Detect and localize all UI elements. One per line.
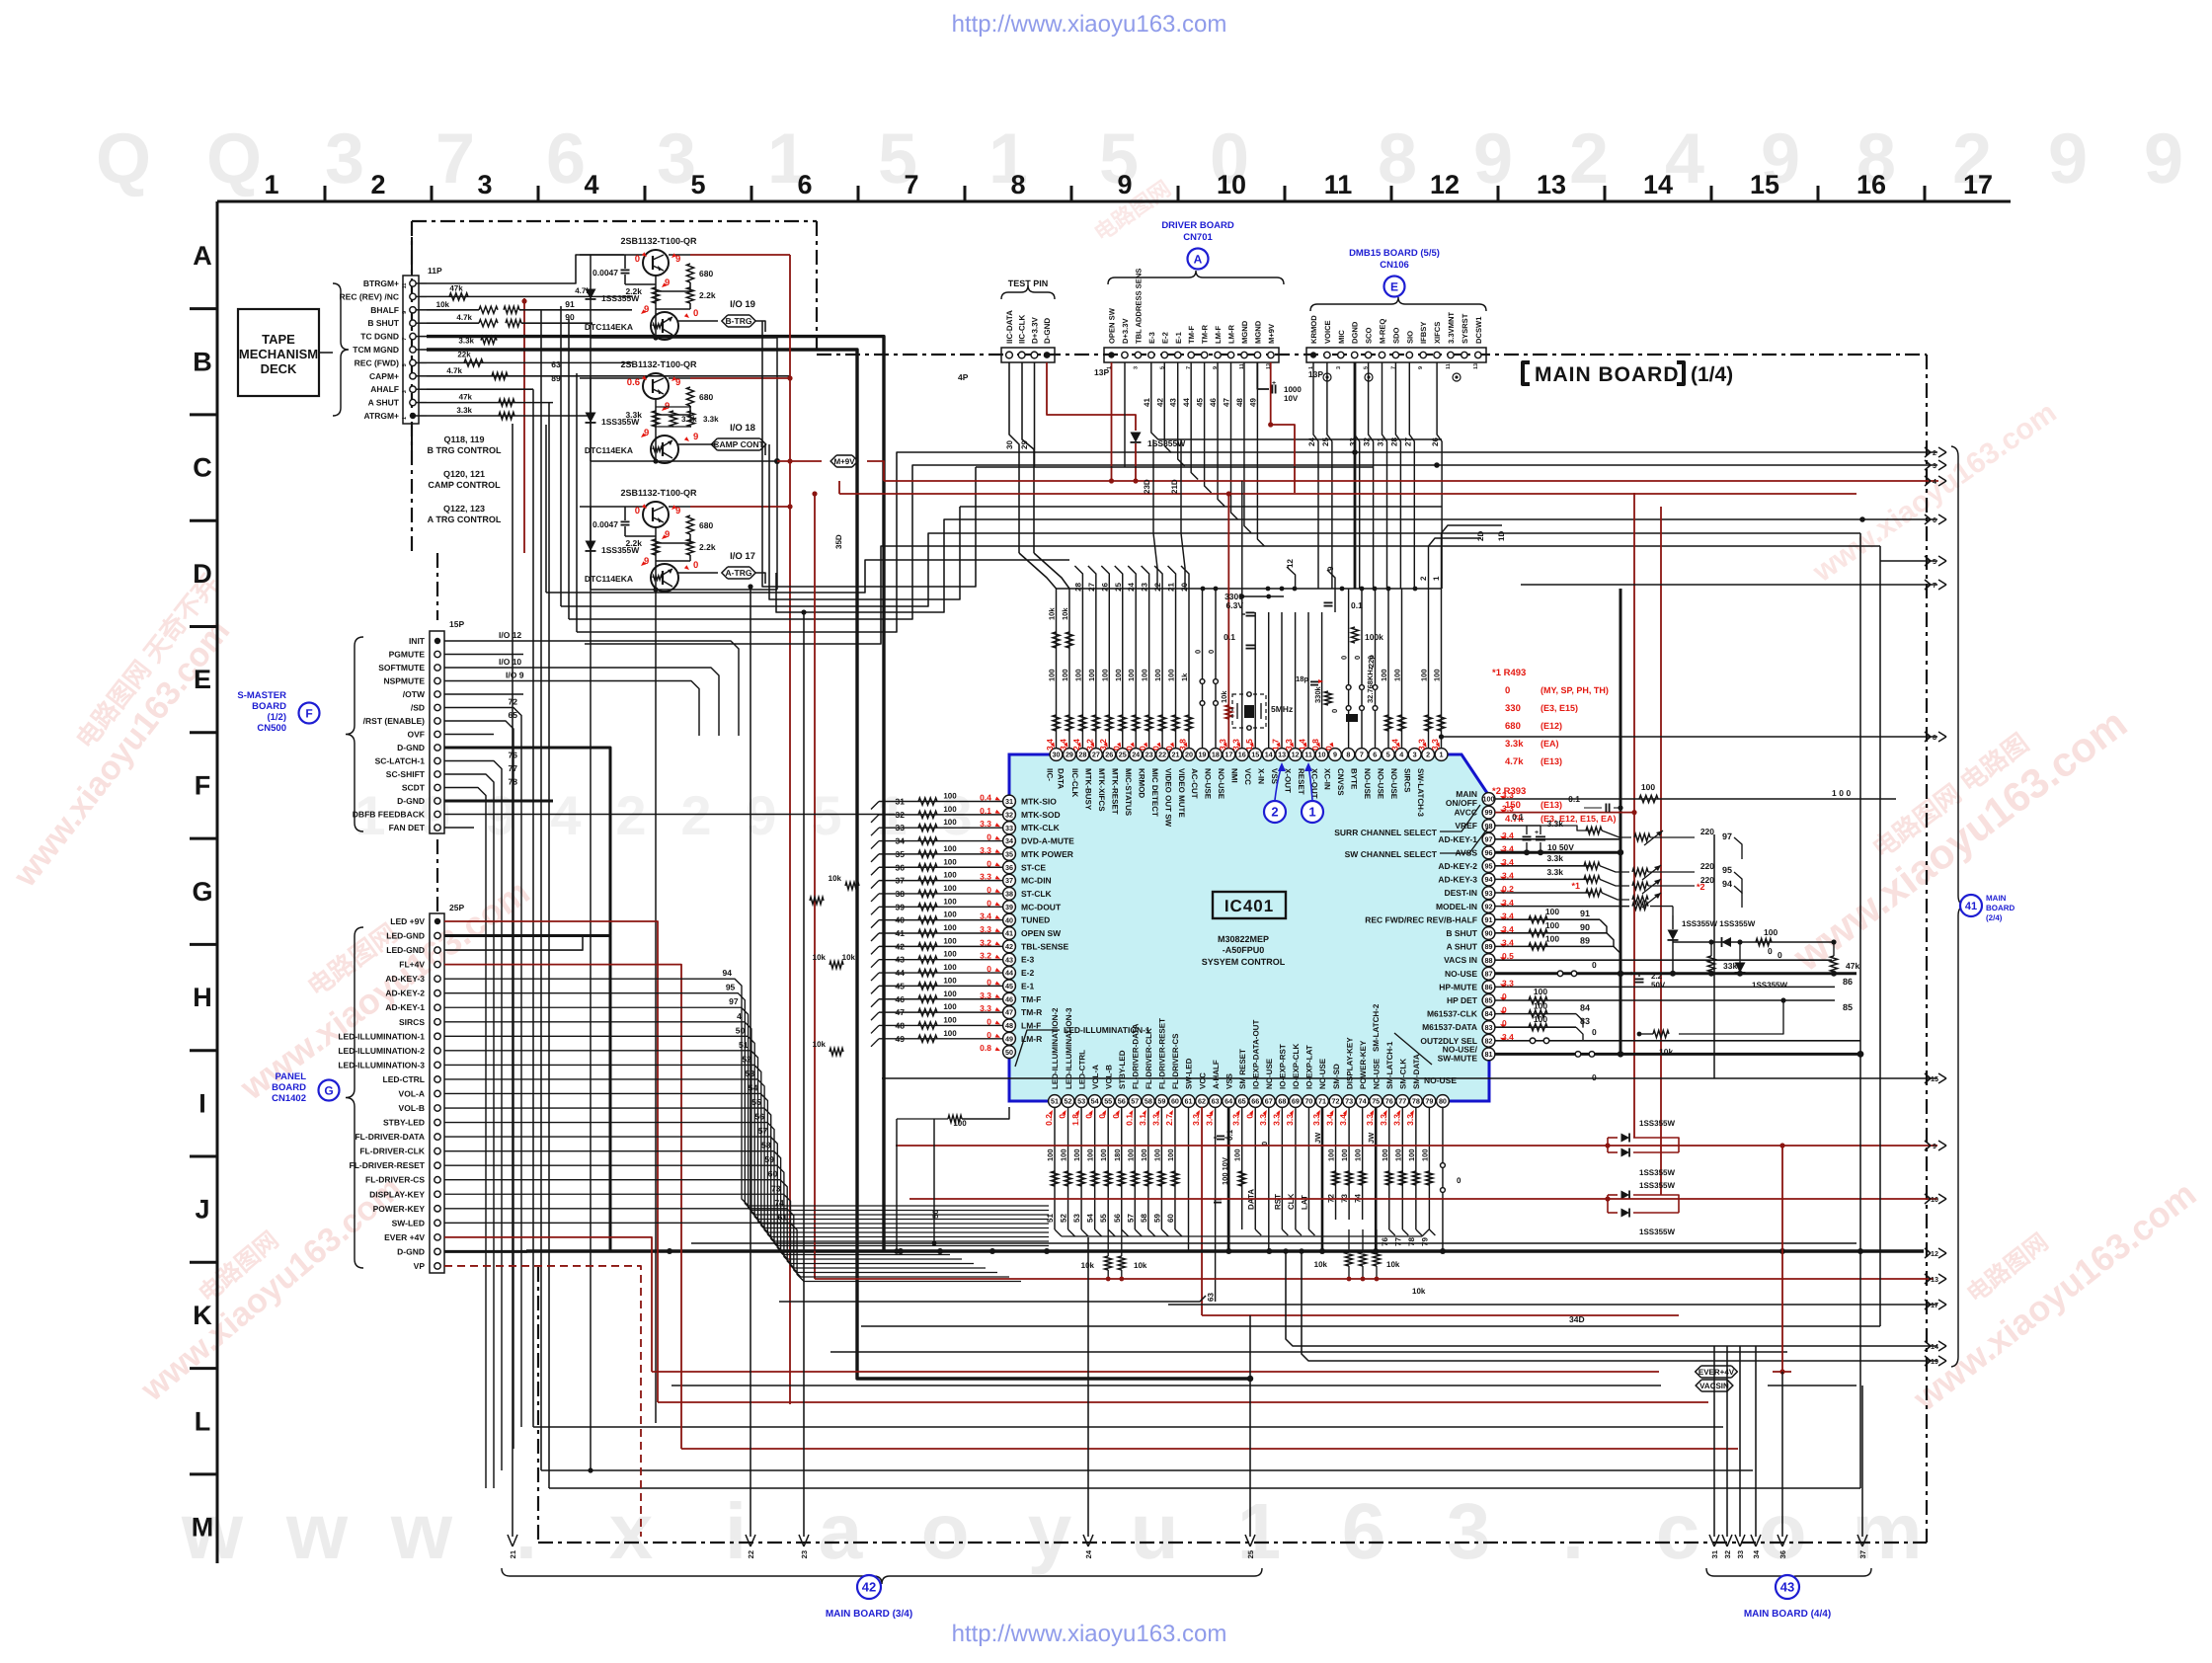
svg-text:0: 0 [1592,960,1597,970]
svg-text:1SS355W: 1SS355W [1639,1227,1675,1236]
svg-text:55: 55 [751,1097,761,1107]
svg-text:49: 49 [1248,398,1257,407]
svg-text:28: 28 [1073,582,1082,591]
svg-text:X-IN: X-IN [1256,768,1265,784]
svg-text:91: 91 [1580,909,1590,918]
svg-text:3.3: 3.3 [1391,1114,1401,1126]
svg-text:VIDEO MUTE: VIDEO MUTE [1177,768,1186,818]
svg-text:78: 78 [1412,1097,1420,1106]
svg-text:11: 11 [1446,363,1452,369]
svg-text:1: 1 [1308,805,1315,820]
svg-text:CN106: CN106 [1380,260,1409,271]
svg-text:48: 48 [1235,398,1244,407]
svg-text:9: 9 [675,506,680,516]
svg-text:100: 100 [1099,1148,1108,1161]
svg-text:D-GND: D-GND [1043,318,1052,344]
svg-text:NSPMUTE: NSPMUTE [383,676,425,686]
svg-text:100: 100 [1327,1148,1336,1161]
svg-text:42: 42 [862,1580,876,1595]
svg-text:100: 100 [1046,1148,1055,1161]
svg-text:10k: 10k [1061,607,1069,620]
svg-text:59: 59 [764,1154,774,1164]
svg-text:5: 5 [811,784,841,846]
svg-text:9: 9 [1326,566,1335,571]
svg-text:MECHANISM: MECHANISM [239,347,318,361]
svg-text:C: C [193,453,212,483]
svg-text:8: 8 [1010,170,1025,199]
svg-text:STBY-LED: STBY-LED [383,1118,425,1128]
svg-text:57: 57 [1131,1097,1139,1106]
svg-text:http://www.xiaoyu163.com: http://www.xiaoyu163.com [952,11,1227,38]
svg-text:1k: 1k [1180,673,1189,681]
svg-text:a: a [819,1487,863,1575]
svg-text:2: 2 [1569,119,1609,198]
svg-text:35D: 35D [834,534,843,549]
svg-text:100: 100 [1420,669,1429,681]
svg-text:60: 60 [1171,1097,1179,1106]
svg-text:17: 17 [1963,170,1993,199]
svg-text:10k: 10k [1412,1287,1426,1296]
svg-text:CN701: CN701 [1183,232,1213,243]
svg-text:100: 100 [1048,669,1057,681]
svg-text:CN1402: CN1402 [272,1093,306,1104]
svg-text:18p: 18p [1296,674,1308,683]
svg-text:10k: 10k [829,874,842,883]
svg-text:26: 26 [1100,582,1109,591]
svg-text:0: 0 [1777,950,1782,960]
svg-text:(1/4): (1/4) [1691,363,1733,386]
svg-text:TM-F: TM-F [1187,326,1196,344]
svg-text:M-REQ: M-REQ [1379,319,1387,344]
svg-text:DCSW1: DCSW1 [1474,316,1483,344]
svg-text:100: 100 [943,857,957,866]
svg-text:57: 57 [1126,1214,1135,1223]
svg-text:1.8: 1.8 [1070,1114,1080,1126]
svg-text:3.4: 3.4 [1205,1114,1215,1126]
svg-text:100: 100 [943,818,957,827]
svg-text:3.3: 3.3 [1405,1114,1415,1126]
svg-text:KRMOD: KRMOD [1137,768,1145,798]
svg-text:NO-USE: NO-USE [1372,1058,1381,1089]
svg-text:*1 R493: *1 R493 [1492,668,1526,678]
svg-text:9: 9 [1473,119,1513,198]
svg-text:B SHUT: B SHUT [1446,928,1477,938]
svg-text:4.7k: 4.7k [456,313,472,322]
svg-text:10 50V: 10 50V [1547,842,1574,852]
svg-text:SYSYEM CONTROL: SYSYEM CONTROL [1202,957,1286,967]
svg-text:94: 94 [1485,875,1493,884]
svg-text:1SS355W: 1SS355W [601,293,640,303]
svg-text:VOICE: VOICE [1323,320,1332,344]
svg-text:MGND: MGND [1253,320,1262,344]
svg-text:JW: JW [1313,1132,1322,1144]
svg-text:3.3k: 3.3k [1546,819,1563,829]
svg-text:44: 44 [1182,398,1191,407]
svg-text:13: 13 [1473,363,1479,369]
svg-text:10k: 10k [813,953,827,962]
svg-text:100k: 100k [1365,632,1383,642]
svg-text:92: 92 [1485,902,1493,911]
svg-text:59: 59 [1157,1097,1165,1106]
svg-text:MC-DIN: MC-DIN [1021,876,1052,886]
svg-text:33: 33 [1005,824,1013,832]
svg-text:D+3.3V: D+3.3V [1121,318,1130,344]
svg-text:DBFB FEEDBACK: DBFB FEEDBACK [353,810,426,820]
svg-text:AHALF: AHALF [370,384,399,394]
svg-text:100: 100 [1114,669,1123,681]
svg-text:FL-DRIVER-DATA: FL-DRIVER-DATA [355,1132,425,1142]
svg-text:NO-USE: NO-USE [1265,1058,1274,1089]
svg-text:46: 46 [1005,994,1013,1003]
svg-text:42: 42 [1005,942,1013,951]
svg-text:62: 62 [1198,1097,1206,1106]
svg-text:39: 39 [1005,903,1013,911]
svg-text:49: 49 [896,1034,906,1044]
svg-text:2.2k: 2.2k [699,542,716,552]
svg-text:2: 2 [615,784,646,846]
svg-text:Q120, 121: Q120, 121 [443,469,485,479]
svg-text:TAPE: TAPE [262,332,295,347]
svg-text:LM-R: LM-R [1227,325,1236,344]
svg-text:38: 38 [1005,890,1013,899]
svg-text:54: 54 [749,1082,758,1092]
svg-text:32: 32 [896,810,906,820]
svg-text:I/O 10: I/O 10 [499,657,521,667]
svg-text:3.1: 3.1 [1138,1114,1147,1126]
svg-text:IO-EXP-LAT: IO-EXP-LAT [1305,1045,1314,1089]
svg-text:34D: 34D [1569,1314,1585,1324]
svg-text:AD-KEY-3: AD-KEY-3 [1438,875,1477,885]
svg-text:+: + [1629,971,1633,978]
svg-text:63: 63 [1207,1293,1216,1302]
svg-text:86: 86 [1485,983,1493,991]
svg-text:MGND: MGND [1240,320,1249,344]
svg-text:LED-ILLUMINATION-1: LED-ILLUMINATION-1 [338,1031,425,1041]
svg-text:IIC-CLK: IIC-CLK [1018,314,1027,344]
svg-text:6.3V: 6.3V [1226,600,1244,610]
svg-text:13P: 13P [1308,369,1323,379]
svg-text:100: 100 [1061,669,1069,681]
svg-text:LED-CTRL: LED-CTRL [383,1074,426,1084]
svg-text:100: 100 [943,950,957,959]
svg-text:MTK-RESET: MTK-RESET [1111,768,1120,815]
svg-text:(1/2): (1/2) [267,712,286,723]
svg-text:100: 100 [1060,1148,1068,1161]
svg-text:3.4: 3.4 [1325,1114,1335,1126]
svg-text:FL-DRIVER-CLK: FL-DRIVER-CLK [1145,1028,1153,1089]
svg-text:MC-DOUT: MC-DOUT [1021,902,1062,911]
svg-text:3.3k: 3.3k [681,415,697,424]
svg-text:MAIN BOARD (3/4): MAIN BOARD (3/4) [826,1609,912,1620]
svg-text:SW-LED: SW-LED [392,1218,425,1227]
svg-text:REC (REV) /NC: REC (REV) /NC [340,291,399,301]
svg-text:A SHUT: A SHUT [368,398,400,408]
svg-text:(E13): (E13) [1540,800,1562,810]
svg-text:25: 25 [1246,1550,1255,1558]
svg-text:13P: 13P [1094,367,1109,377]
svg-text:RESET: RESET [1297,768,1305,795]
svg-text:(EA): (EA) [1540,739,1559,749]
svg-text:94: 94 [723,968,733,978]
svg-text:11: 11 [402,283,408,289]
svg-text:79: 79 [1425,1097,1433,1106]
svg-text:F: F [305,706,312,720]
svg-text:22p: 22p [1367,655,1376,668]
svg-text:0: 0 [1340,656,1349,660]
svg-text:36: 36 [1778,1550,1787,1558]
svg-text:E-2: E-2 [1021,968,1035,978]
svg-text:6: 6 [546,119,586,198]
svg-text:54: 54 [1091,1097,1099,1106]
svg-text:77: 77 [509,763,518,773]
svg-text:1: 1 [402,417,408,420]
svg-text:FL+4V: FL+4V [399,960,425,970]
svg-text:50V: 50V [1651,981,1666,990]
svg-text:65: 65 [509,710,518,720]
svg-text:1SS355W: 1SS355W [1639,1119,1675,1128]
svg-text:STBY-LED: STBY-LED [1118,1050,1127,1089]
svg-text:36: 36 [896,862,906,872]
svg-text:7: 7 [435,119,475,198]
svg-text:B SHUT: B SHUT [367,318,399,328]
svg-text:SM-LATCH-1: SM-LATCH-1 [1385,1041,1394,1089]
svg-text:REC FWD/REC REV/B-HALF: REC FWD/REC REV/B-HALF [1365,914,1477,924]
svg-text:89: 89 [1485,942,1493,951]
svg-text:AD-KEY-1: AD-KEY-1 [385,1002,425,1012]
svg-text:LM-F: LM-F [1214,326,1223,344]
svg-text:100: 100 [943,1029,957,1038]
svg-text:ON/OFF: ON/OFF [1446,798,1477,808]
svg-text:E: E [194,665,211,694]
svg-text:0.1: 0.1 [1224,632,1235,642]
svg-text:2SB1132-T100-QR: 2SB1132-T100-QR [620,488,697,498]
svg-text:16: 16 [1856,170,1886,199]
svg-text:MTK-SOD: MTK-SOD [1021,810,1061,820]
svg-text:SM-DATA: SM-DATA [1412,1054,1421,1089]
svg-text:3.3: 3.3 [1285,1114,1295,1126]
svg-text:SW-LATCH-3: SW-LATCH-3 [1416,768,1425,818]
svg-text:(MY, SP, PH, TH): (MY, SP, PH, TH) [1540,685,1609,695]
svg-text:D-GND: D-GND [397,796,425,806]
svg-text:100: 100 [1087,669,1096,681]
svg-text:DECK: DECK [261,361,297,376]
svg-text:100: 100 [943,963,957,972]
svg-text:8: 8 [1346,751,1350,759]
svg-text:50: 50 [931,1210,940,1219]
svg-text:4: 4 [584,170,598,199]
svg-text:100: 100 [943,936,957,945]
svg-text:46: 46 [1209,398,1218,407]
svg-text:10k: 10k [1386,1260,1400,1269]
svg-text:100: 100 [1152,1148,1161,1161]
svg-text:3: 3 [477,170,492,199]
svg-text:IIC-: IIC- [1046,768,1055,781]
svg-text:52: 52 [742,1054,751,1064]
svg-text:5: 5 [1933,557,1936,566]
svg-text:VP: VP [414,1261,426,1271]
svg-text:Q: Q [206,119,262,198]
svg-text:330k: 330k [1313,685,1322,703]
svg-text:I/O 9: I/O 9 [506,671,524,680]
svg-text:0.1: 0.1 [1512,812,1524,822]
svg-text:IO-EXP-CLK: IO-EXP-CLK [1292,1044,1301,1089]
svg-text:4: 4 [1933,477,1936,486]
svg-text:100: 100 [1340,1148,1349,1161]
svg-text:CLK: CLK [1287,1193,1296,1210]
svg-text:B: B [193,347,212,376]
svg-text:100: 100 [1393,1148,1402,1161]
svg-text:0: 0 [1505,685,1510,696]
svg-text:15P: 15P [449,619,464,629]
svg-text:96: 96 [1485,848,1493,857]
svg-text:24: 24 [1084,1549,1093,1558]
svg-text:88: 88 [1485,956,1493,965]
svg-text:38: 38 [896,889,906,899]
svg-text:SURR CHANNEL SELECT: SURR CHANNEL SELECT [1334,828,1438,837]
svg-text:LED-ILLUMINATION-2: LED-ILLUMINATION-2 [338,1046,425,1056]
svg-text:12: 12 [1286,559,1295,568]
svg-text:DTC114EKA: DTC114EKA [585,574,633,584]
svg-text:IFBSY: IFBSY [1419,322,1428,344]
svg-text:2: 2 [1271,805,1278,820]
svg-text:FAN DET: FAN DET [389,823,426,832]
svg-text:3.3: 3.3 [1191,1114,1201,1126]
svg-text:72: 72 [509,697,518,707]
svg-text:67: 67 [1265,1097,1273,1106]
svg-text:13: 13 [1931,1275,1938,1284]
svg-text:M30822MEP: M30822MEP [1218,934,1269,944]
svg-text:M+9V: M+9V [1267,323,1276,344]
svg-text:47: 47 [896,1007,906,1017]
svg-text:27: 27 [1087,582,1096,591]
svg-text:56: 56 [755,1112,765,1122]
svg-text:0: 0 [1058,1114,1067,1119]
svg-text:45: 45 [896,981,906,990]
svg-text:9: 9 [2048,119,2088,198]
svg-text:4.7k: 4.7k [446,366,462,375]
svg-text:97: 97 [729,996,739,1006]
svg-text:SW-LED: SW-LED [1185,1058,1194,1089]
svg-text:47k: 47k [449,283,463,292]
svg-text:6: 6 [1373,751,1377,759]
svg-text:100: 100 [1641,782,1655,792]
svg-text:NO-USE: NO-USE [1445,969,1477,979]
svg-text:32: 32 [1005,810,1013,819]
svg-text:5: 5 [690,170,705,199]
svg-text:E-2: E-2 [1160,332,1169,344]
svg-text:86: 86 [1843,977,1853,987]
svg-text:SOFTMUTE: SOFTMUTE [378,663,425,673]
svg-text:A-TRG: A-TRG [726,568,752,578]
svg-text:89: 89 [551,373,561,383]
svg-text:VOL-A: VOL-A [1091,1065,1100,1089]
svg-text:26: 26 [1431,437,1440,446]
svg-text:40: 40 [1005,915,1013,924]
svg-text:47k: 47k [459,393,473,402]
svg-text:w: w [285,1487,349,1575]
svg-text:53: 53 [746,1069,755,1078]
svg-text:NO-USE: NO-USE [1204,768,1213,800]
svg-text:SDO: SDO [1391,327,1400,344]
svg-text:DISPLAY-KEY: DISPLAY-KEY [1345,1037,1354,1089]
svg-text:LED-ILLUMINATION-3: LED-ILLUMINATION-3 [1065,1007,1073,1089]
svg-text:CAPM+: CAPM+ [369,371,399,381]
svg-text:79: 79 [1420,1237,1429,1246]
svg-text:DTC114EKA: DTC114EKA [585,445,633,455]
svg-text:97: 97 [1722,831,1732,841]
svg-text:TM-F: TM-F [1021,994,1041,1004]
svg-text:MTK POWER: MTK POWER [1021,849,1073,859]
svg-text:100: 100 [1354,1148,1363,1161]
svg-text:2: 2 [680,784,711,846]
svg-text:4: 4 [1399,751,1403,759]
svg-text:9: 9 [2144,119,2183,198]
svg-text:9: 9 [644,428,649,438]
svg-text:E-1: E-1 [1174,331,1183,344]
svg-text:2: 2 [1933,448,1936,457]
svg-text:43: 43 [1780,1580,1794,1595]
svg-text:L: L [195,1406,211,1436]
svg-text:30: 30 [1005,440,1014,449]
svg-text:0.0047: 0.0047 [592,268,618,277]
svg-text:10k: 10k [1314,1260,1328,1269]
svg-text:46: 46 [896,994,906,1004]
svg-text:85: 85 [1485,996,1493,1005]
svg-text:MODEL-IN: MODEL-IN [1436,902,1477,911]
svg-text:IIC-DATA: IIC-DATA [1005,310,1014,344]
svg-text:2D: 2D [1476,531,1485,541]
svg-text:3: 3 [1133,366,1139,369]
svg-text:3.3k: 3.3k [1546,867,1563,877]
svg-text:1: 1 [1237,1487,1282,1575]
svg-text:51: 51 [739,1040,749,1050]
svg-text:VOL-A: VOL-A [399,1088,425,1098]
svg-text:2SB1132-T100-QR: 2SB1132-T100-QR [620,359,697,369]
svg-text:37: 37 [896,876,906,886]
svg-text:2.2: 2.2 [1651,972,1663,981]
svg-text:98: 98 [1485,822,1493,831]
svg-text:53: 53 [1077,1097,1085,1106]
svg-text:21: 21 [509,1550,517,1558]
svg-text:90: 90 [565,312,575,322]
svg-text:47: 47 [1223,398,1231,407]
svg-text:3: 3 [1336,366,1342,369]
svg-text:F: F [195,771,211,801]
svg-text:ST-CLK: ST-CLK [1021,889,1053,899]
svg-text:24: 24 [1307,437,1316,446]
svg-text:BTRGM+: BTRGM+ [363,278,399,288]
svg-text:93: 93 [1485,889,1493,898]
svg-text:25: 25 [1114,582,1123,591]
svg-text:3.3: 3.3 [1231,1114,1241,1126]
svg-text:54: 54 [1086,1214,1095,1223]
svg-text:SC-SHIFT: SC-SHIFT [386,769,426,779]
svg-text:39: 39 [896,902,906,911]
svg-text:NO-USE: NO-USE [1424,1075,1457,1085]
svg-text:89: 89 [1580,935,1590,945]
svg-text:6: 6 [797,170,812,199]
svg-text:0.6: 0.6 [627,377,640,388]
svg-text:42: 42 [896,941,906,951]
svg-text:NO-USE: NO-USE [1363,768,1372,800]
svg-text:EVER +4V: EVER +4V [384,1232,425,1242]
svg-text:CNVSS: CNVSS [1336,768,1345,796]
svg-text:SIRCS: SIRCS [399,1017,425,1027]
svg-text:60: 60 [1166,1214,1175,1223]
svg-text:58: 58 [1140,1214,1148,1223]
svg-text:*2 R393: *2 R393 [1492,786,1526,797]
svg-text:680: 680 [1505,721,1521,732]
